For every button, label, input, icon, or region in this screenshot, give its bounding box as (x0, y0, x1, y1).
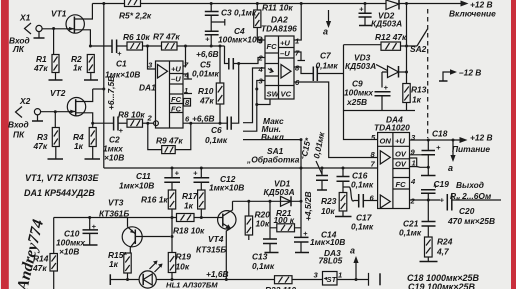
svg-text:10к: 10к (176, 262, 190, 272)
svg-text:1: 1 (295, 37, 299, 46)
svg-text:FC: FC (171, 95, 182, 104)
svg-text:КД503А: КД503А (371, 19, 402, 29)
wire VD2 to arrow +12V (399, 3, 461, 5)
riser bus to VD3 (406, 4, 408, 73)
node R10 top (219, 45, 222, 48)
node bottom/R15 (126, 278, 129, 281)
vertical feedback rail x106 (103, 4, 105, 169)
capacitor after DA3 (369, 273, 381, 286)
svg-text:10к: 10к (321, 206, 335, 216)
svg-text:FC: FC (267, 42, 278, 51)
node 2 input of DA1 (146, 122, 149, 125)
svg-text:Вход: Вход (8, 120, 29, 130)
wire DA4 pin5 (344, 111, 378, 140)
node bus/C12 (200, 167, 203, 170)
svg-text:X2: X2 (19, 96, 31, 106)
svg-text:100мк×10В: 100мк×10В (218, 35, 263, 45)
wire pin6 +6.6 (183, 122, 227, 124)
+6.6V rail (177, 45, 225, 47)
svg-text:+12 В: +12 В (470, 133, 493, 143)
ground at R2 (84, 73, 98, 81)
wire DA1 pin3 (148, 46, 156, 69)
resistor R13 (403, 72, 427, 111)
svg-text:R17: R17 (182, 191, 198, 201)
switch SA2 (410, 9, 428, 138)
svg-text:+: + (205, 35, 210, 44)
resistor R14 (32, 218, 57, 289)
svg-text:Выход: Выход (456, 180, 484, 190)
svg-text:R7 47к: R7 47к (153, 32, 180, 42)
svg-text:+: + (117, 49, 122, 58)
node VT2 source/C2 (91, 122, 94, 125)
squiggle wire to C17 (343, 187, 359, 201)
svg-text:1к: 1к (184, 201, 194, 211)
svg-text:78L05: 78L05 (319, 256, 343, 266)
svg-text:C3 0,1мк: C3 0,1мк (221, 8, 257, 18)
svg-text:R5* 2,2к: R5* 2,2к (119, 11, 152, 21)
stub between C3 and C4 (211, 15, 225, 31)
bottom bus wire (110, 279, 368, 281)
ground at X1 (34, 32, 45, 38)
svg-text:4: 4 (258, 65, 264, 74)
node VD1 right (300, 200, 303, 203)
resistor R16 (141, 190, 176, 218)
node bus/C11 (171, 167, 174, 170)
IC DA4 TDA1020 (370, 115, 417, 209)
node base/R17 (200, 216, 203, 219)
diode VD3 (345, 53, 407, 78)
wire pin1 to node (417, 166, 429, 169)
svg-text:+6...7,5В: +6...7,5В (106, 76, 116, 110)
svg-text:1к: 1к (109, 259, 119, 269)
svg-text:1: 1 (412, 159, 416, 168)
capacitor C8 (359, 4, 372, 26)
svg-text:а: а (323, 27, 328, 37)
svg-text:C6: C6 (211, 125, 222, 135)
down arrow node a (top) (323, 10, 331, 37)
wire DA2 SW to SA1 (257, 99, 270, 105)
svg-text:VT1, VT2 КП303Е: VT1, VT2 КП303Е (25, 173, 100, 183)
svg-text:4: 4 (410, 177, 416, 186)
transistor VT3 (99, 198, 170, 254)
svg-text:×10В: ×10В (59, 247, 79, 257)
resistor R5 (119, 0, 152, 21)
svg-text:+6,6В: +6,6В (192, 114, 215, 124)
resistor R17 (182, 190, 205, 218)
arrow +12V on (449, 0, 496, 19)
node pin7/rail (184, 45, 187, 48)
svg-text:HL1 АЛ307БМ: HL1 АЛ307БМ (166, 281, 218, 289)
down arrow node a (right) (448, 140, 456, 173)
svg-text:R8 10к: R8 10к (118, 110, 145, 120)
capacitor C1 (105, 40, 140, 80)
collector wire VT4 (233, 200, 302, 202)
svg-text:+U: +U (171, 65, 181, 74)
capacitor C4 (205, 26, 263, 46)
svg-text:C7: C7 (320, 51, 331, 61)
resistor R1 (33, 29, 59, 74)
svg-text:1к: 1к (412, 95, 422, 105)
svg-text:10к: 10к (256, 219, 270, 229)
svg-text:0,1мк: 0,1мк (316, 61, 339, 71)
right red border (511, 0, 516, 289)
capacitor C2 (93, 117, 125, 163)
svg-text:0,1мк: 0,1мк (351, 222, 374, 232)
svg-text:47к: 47к (33, 63, 48, 73)
svg-text:+6,6В: +6,6В (196, 49, 219, 59)
svg-text:DA1 КР544УД2В: DA1 КР544УД2В (24, 188, 95, 198)
wire source to C1 (90, 45, 112, 47)
svg-text:R12 47к: R12 47к (375, 32, 407, 42)
svg-text:OV: OV (395, 150, 407, 159)
base wire VT3/VT4 (54, 217, 218, 219)
svg-text:X1: X1 (19, 13, 31, 23)
svg-text:R19: R19 (176, 252, 192, 262)
wire pin8 to C7 (294, 67, 313, 74)
resistor R3 (33, 112, 60, 151)
wire pin VC riser to DA4 pin8 (294, 82, 378, 158)
resistor R2 (71, 54, 94, 73)
node C13 top (269, 200, 272, 203)
capacitor C13 (252, 201, 279, 271)
svg-text:470 мк×25В: 470 мк×25В (447, 216, 495, 226)
node C4/rail (210, 45, 213, 48)
capacitor C19 (421, 167, 449, 200)
svg-text:OV: OV (395, 160, 407, 169)
resistor R7 (153, 32, 180, 51)
wire DA4 pin3 +12V (410, 139, 461, 141)
resistor R22 (265, 276, 296, 289)
connector X1 (9, 13, 42, 55)
svg-text:+4,5/2В: +4,5/2В (303, 191, 313, 221)
svg-text:R24: R24 (437, 237, 453, 247)
capacitor C3 (205, 4, 257, 18)
svg-text:C19 100мк×25В: C19 100мк×25В (408, 282, 476, 289)
svg-text:VT4: VT4 (208, 234, 224, 244)
svg-text:4,7: 4,7 (436, 247, 449, 257)
svg-text:2: 2 (147, 114, 153, 123)
resistor R19 (168, 218, 191, 280)
svg-text:а: а (448, 163, 453, 173)
svg-text:1к: 1к (73, 63, 83, 73)
svg-text:+: + (119, 126, 124, 135)
op-amp DA1 (139, 61, 190, 129)
node pin3/C18 (427, 139, 430, 142)
svg-text:C18: C18 (432, 129, 448, 139)
svg-text:VT2: VT2 (50, 88, 66, 98)
svg-text:VT1: VT1 (51, 9, 67, 19)
resistor R6 (123, 32, 150, 50)
switch SA1 (243, 116, 304, 165)
svg-text:+: + (440, 196, 445, 205)
svg-text:C20: C20 (459, 206, 475, 216)
top supply bus (92, 3, 386, 5)
diode VD2 (371, 0, 402, 29)
node bottom/R19 (171, 278, 174, 281)
resistor R15 (108, 250, 131, 280)
svg-text:R22 110: R22 110 (265, 285, 296, 289)
ground at R3 (48, 147, 64, 160)
svg-text:47к: 47к (199, 96, 214, 106)
wire R6-R7 (143, 45, 162, 47)
pin 7 wire DA1 (183, 46, 186, 66)
svg-text:Выкл: Выкл (261, 132, 285, 142)
node top bus x106 (102, 2, 105, 5)
svg-text:100мкх: 100мкх (344, 88, 373, 98)
arrow +12V supply (452, 133, 493, 155)
wire VT1 source (74, 30, 90, 46)
node bus/VD1 riser (300, 167, 303, 170)
capacitor C7 (313, 51, 343, 82)
svg-text:–U: –U (171, 75, 181, 84)
svg-text:R11 10к: R11 10к (262, 3, 293, 13)
node VT3/vertical (171, 235, 174, 238)
middle bus wire (104, 167, 378, 169)
svg-text:2: 2 (258, 54, 264, 63)
node top bus C8 (364, 2, 367, 5)
node pin3/a-branch (452, 139, 455, 142)
svg-text:+: + (384, 83, 389, 92)
svg-text:SA2: SA2 (410, 44, 427, 54)
svg-text:1: 1 (338, 271, 342, 280)
svg-text:+: + (175, 169, 180, 178)
capacitor C14 (294, 229, 345, 253)
resistor R23 (321, 193, 352, 217)
svg-text:2: 2 (410, 197, 416, 206)
wire drain to rail (93, 88, 104, 90)
svg-text:+: + (193, 169, 198, 178)
LED HL1 (139, 261, 218, 289)
wire DA2 pin3 to SA1 (249, 81, 265, 132)
node VT2 gate/R3 (54, 110, 57, 113)
transistor VT4 (196, 201, 236, 279)
svg-text:R23: R23 (321, 196, 337, 206)
svg-text:+U: +U (395, 137, 405, 146)
svg-text:VT3: VT3 (108, 198, 124, 208)
node VT1 gate/R1 (52, 27, 55, 30)
ground at R1 (49, 73, 63, 81)
node pin3/SW (255, 103, 258, 106)
ground at X2 (32, 115, 43, 121)
svg-text:КТ361Б: КТ361Б (99, 209, 129, 219)
svg-text:х25В: х25В (346, 97, 367, 107)
transistor VT2 (50, 88, 86, 116)
node R2 top (89, 45, 92, 48)
capacitor C12 (193, 168, 244, 193)
svg-text:0,1мк: 0,1мк (351, 180, 374, 190)
svg-text:+U: +U (280, 39, 290, 48)
svg-text:FC: FC (396, 180, 407, 189)
pin 8 box DA1 (184, 98, 191, 107)
svg-text:C1: C1 (116, 59, 127, 69)
node R12/riser (405, 45, 408, 48)
svg-text:ПК: ПК (13, 130, 25, 140)
capacitor C9 (344, 72, 391, 111)
node C18/pin1 (427, 166, 430, 169)
ground at R4 (85, 147, 101, 160)
wire DA4 pin9 (410, 154, 429, 156)
svg-text:1мк×10В: 1мк×10В (119, 181, 154, 191)
svg-text:ЛК: ЛК (12, 44, 25, 54)
svg-text:КТ315Б: КТ315Б (196, 245, 226, 255)
node R20 top (247, 200, 250, 203)
svg-text:ON: ON (380, 137, 392, 146)
connector X2 (8, 96, 41, 140)
svg-text:R13: R13 (411, 85, 427, 95)
capacitor C16 (337, 168, 374, 193)
resistor R24 (420, 237, 453, 262)
resistor R11 (254, 3, 294, 41)
node VD3/R13 (405, 71, 408, 74)
wire X2 gate (41, 111, 68, 113)
svg-text:R10: R10 (198, 86, 214, 96)
node 6 output of DA1 (189, 122, 192, 125)
capacitor C11 (119, 168, 180, 191)
resistor R4 (73, 123, 96, 151)
svg-text:47к: 47к (33, 141, 48, 151)
up arrow node a (bottom) (350, 246, 359, 280)
svg-text:+: + (436, 143, 441, 152)
svg-text:1мк×10В: 1мк×10В (209, 183, 244, 193)
wire DA4 pin2 output (410, 199, 441, 201)
svg-text:SW: SW (267, 90, 280, 99)
pin 4 stub DA1 (183, 74, 192, 79)
capacitor C18 (422, 129, 448, 168)
pin 7 stub DA2 (294, 52, 305, 61)
svg-text:Питание: Питание (452, 144, 490, 154)
svg-text:КД503А: КД503А (264, 187, 295, 197)
svg-text:а: а (350, 246, 355, 256)
pin 1 stub DA1 (184, 93, 192, 95)
wire VT2 drain (76, 89, 93, 102)
node pin3 vertical (255, 88, 258, 91)
svg-text:Включение: Включение (449, 9, 496, 19)
node VT4 emitter/bottom (225, 278, 228, 281)
svg-text:ТDА1020: ТDА1020 (374, 123, 410, 133)
svg-text:–U: –U (280, 49, 290, 58)
wire VT1 drain to top bus (74, 4, 92, 20)
node base/R16 (171, 216, 174, 219)
svg-text:КД503А: КД503А (345, 61, 376, 71)
IC DA3 78L05 (314, 248, 343, 285)
node output/C21 (427, 199, 430, 202)
capacitor C5 (192, 46, 265, 79)
node bus/C15 (321, 167, 324, 170)
node bus/DA2 pin1 (300, 2, 303, 5)
svg-text:„Обработка”: „Обработка” (246, 155, 304, 165)
IC DA2 TDA8196 (258, 15, 301, 100)
node bottom/a (355, 278, 358, 281)
svg-text:×10В: ×10В (104, 153, 124, 163)
svg-text:0,1мк: 0,1мк (205, 135, 228, 145)
node C6 riser on pin2 wire (237, 62, 240, 65)
capacitor C10 (56, 218, 98, 257)
capacitor C6 (205, 64, 239, 146)
transistor VT1 (51, 9, 84, 34)
svg-text:VC: VC (281, 90, 292, 99)
svg-text:R6 10к: R6 10к (123, 32, 150, 42)
svg-text:R9 47к: R9 47к (156, 136, 183, 146)
resistor R18 (173, 214, 205, 236)
svg-text:1к: 1к (74, 141, 84, 151)
svg-text:+1,6В: +1,6В (206, 269, 229, 279)
resistor R12 (344, 32, 418, 50)
node top bus C3 (210, 2, 213, 5)
svg-text:ST: ST (327, 275, 338, 284)
resistor R8 (118, 110, 154, 128)
node R10 bottom (219, 122, 222, 125)
enclosure wire VD3/C9 left (344, 45, 416, 111)
node rail/drain (102, 88, 105, 91)
svg-text:R16 1к: R16 1к (141, 195, 168, 205)
riser VD1 to bus (300, 140, 302, 238)
pin 1 box DA4 (410, 158, 417, 168)
node SA1 pole (300, 138, 303, 141)
wire VT2 source (76, 113, 93, 123)
chassis tap left (109, 274, 111, 285)
resistor R9 feedback (148, 123, 191, 153)
-12V tap (439, 68, 481, 82)
svg-text:+: + (359, 5, 364, 14)
wire C1 to R6 (117, 45, 127, 47)
wire DA2 pin4 to SA1 (249, 68, 265, 123)
capacitor C20 (440, 194, 502, 226)
svg-text:0,01мк: 0,01мк (192, 69, 219, 79)
node bus/SA2 riser (405, 2, 408, 5)
svg-text:–12 В: –12 В (459, 68, 481, 78)
svg-text:R18 10к: R18 10к (173, 226, 205, 236)
node bus/C16 (342, 167, 345, 170)
left red border (1, 0, 9, 289)
svg-text:C11: C11 (136, 171, 151, 181)
svg-text:0,1мк: 0,1мк (399, 228, 422, 238)
node R6/R7/pin3 (146, 45, 149, 48)
capacitor C17 (351, 194, 378, 232)
svg-text:FC: FC (171, 105, 182, 114)
svg-text:ТDА8196: ТDА8196 (261, 24, 297, 34)
wire X1 gate (42, 28, 66, 30)
node top bus R11 (256, 2, 259, 5)
capacitor C15 with rotated label (299, 130, 328, 190)
resistor R21 (270, 208, 301, 232)
diode VD1 (264, 179, 295, 207)
capacitor C21 (399, 200, 436, 238)
resistor R10 (198, 46, 224, 123)
node base/C10 (88, 216, 91, 219)
svg-text:DA1: DA1 (139, 83, 156, 93)
svg-text:0,1мк: 0,1мк (252, 261, 275, 271)
pin 1 wire DA2 to top bus (294, 4, 301, 41)
svg-text:1мк×10В: 1мк×10В (310, 237, 345, 247)
resistor R20 (245, 201, 270, 240)
